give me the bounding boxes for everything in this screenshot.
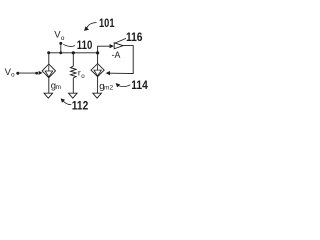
leader line 101	[87, 23, 97, 29]
feedback wire from amplifier to gm2	[110, 46, 134, 74]
stub wire to Vo2 terminal	[60, 43, 62, 52]
arrow into amplifier	[110, 44, 114, 48]
arrow into gm source	[39, 71, 43, 75]
leader line 116	[115, 38, 126, 43]
current direction arrow inside gm	[45, 65, 53, 77]
wire gm bottom to ground	[48, 78, 50, 93]
svg-text:m2: m2	[104, 84, 113, 91]
label Vo input terminal	[5, 67, 15, 79]
label gm2	[99, 81, 113, 92]
junction dot Vo2 stub	[59, 51, 62, 54]
current direction arrow inside gm2	[94, 65, 101, 76]
svg-text:101: 101	[99, 18, 115, 30]
leader line 110	[63, 44, 75, 46]
wire riser to amplifier input	[98, 46, 110, 53]
label Vo top node	[54, 30, 64, 42]
arrow into gm2 control	[106, 71, 110, 75]
node Vo2 terminal dot	[59, 42, 62, 45]
label ro	[78, 67, 85, 80]
svg-text:112: 112	[72, 101, 89, 113]
svg-text:o: o	[61, 35, 65, 42]
dependent current source gm (diamond)	[42, 64, 55, 78]
ground under gm	[44, 93, 53, 98]
svg-text:110: 110	[77, 40, 93, 52]
wire gm top to node	[48, 53, 50, 65]
svg-text:m: m	[56, 84, 62, 91]
ground under resistor	[69, 93, 78, 98]
leader line 112	[63, 101, 71, 104]
svg-text:o: o	[11, 71, 15, 78]
wire input Vo to gm	[18, 72, 38, 74]
leader arrow 101	[84, 26, 89, 31]
leader arrow 114	[116, 83, 121, 87]
wire gm2 top	[97, 53, 99, 64]
wire gm2 bottom to ground	[97, 77, 99, 94]
node Vo terminal dot	[16, 72, 19, 75]
ground under gm2	[93, 93, 102, 98]
junction node above gm	[47, 51, 50, 54]
leader line 114	[118, 85, 130, 87]
resistor ro	[71, 53, 77, 93]
label gm	[51, 81, 62, 92]
junction node above gm2	[96, 51, 99, 54]
top wire output node	[49, 52, 98, 54]
svg-text:o: o	[81, 73, 85, 80]
amplifier -A triangle	[114, 43, 123, 49]
svg-text:-A: -A	[112, 50, 121, 60]
dependent current source gm2 (diamond)	[91, 64, 104, 77]
junction dot on input wire	[35, 72, 38, 75]
svg-text:116: 116	[126, 32, 143, 44]
leader arrow 112	[61, 98, 65, 103]
junction dot above resistor	[72, 51, 75, 54]
svg-text:114: 114	[131, 80, 148, 92]
